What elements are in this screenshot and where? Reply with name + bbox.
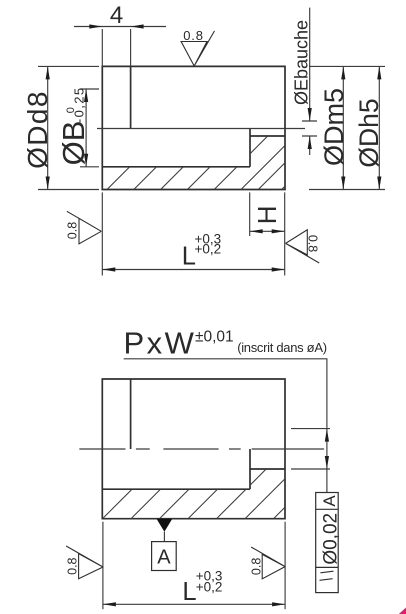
svg-text:±0,01: ±0,01 [195,328,234,345]
svg-text:ØB: ØB [56,121,91,166]
svg-text:0.8: 0.8 [305,235,319,252]
svg-text:A: A [157,547,171,569]
svg-text:Ø0,02: Ø0,02 [320,513,341,565]
svg-text:ØEbauche: ØEbauche [291,20,311,105]
svg-text:L: L [182,578,196,606]
svg-text:0.8: 0.8 [66,222,80,239]
svg-text:0.8: 0.8 [66,557,80,574]
svg-text:PxW: PxW [124,325,197,360]
svg-text:4: 4 [110,2,123,29]
svg-text:-0,25: -0,25 [72,86,87,123]
svg-text:0.8: 0.8 [183,28,203,43]
svg-text:+0,2: +0,2 [196,580,223,595]
svg-text:ØDm5: ØDm5 [319,88,349,166]
svg-text:A: A [320,495,339,507]
svg-text:ØDh5: ØDh5 [354,98,384,167]
svg-text:H: H [252,205,282,224]
svg-text:(inscrit dans øA): (inscrit dans øA) [237,340,327,355]
svg-text:0.8: 0.8 [249,558,263,575]
svg-text:ØDd8: ØDd8 [22,90,53,169]
svg-text:+0,2: +0,2 [195,242,222,257]
